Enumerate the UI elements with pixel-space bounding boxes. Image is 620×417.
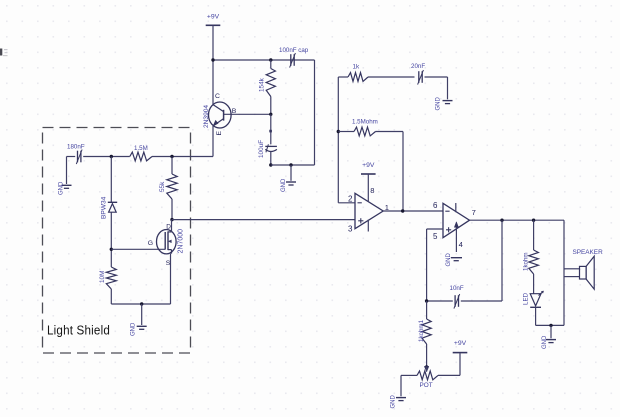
svg-text:2: 2 [348, 195, 353, 204]
svg-text:GND: GND [131, 322, 137, 336]
svg-text:2N7000: 2N7000 [177, 229, 184, 254]
svg-text:154k: 154k [259, 77, 266, 92]
svg-text:4: 4 [459, 240, 463, 249]
svg-text:+9V: +9V [207, 14, 220, 21]
svg-text:1kohm: 1kohm [523, 252, 530, 271]
svg-text:POT: POT [420, 382, 433, 389]
svg-text:GND: GND [436, 97, 442, 111]
svg-text:2N3904: 2N3904 [203, 105, 210, 128]
svg-text:3: 3 [348, 225, 353, 234]
svg-text:LED: LED [522, 292, 529, 305]
svg-text:55k: 55k [159, 181, 166, 192]
svg-text:+9V: +9V [454, 340, 467, 347]
svg-text:E: E [216, 131, 223, 136]
svg-text:+9V: +9V [362, 162, 375, 169]
svg-text:D: D [166, 224, 171, 231]
svg-text:GND: GND [446, 253, 452, 267]
svg-text:1.5Mohm: 1.5Mohm [352, 119, 378, 126]
svg-text:GND: GND [281, 178, 287, 192]
svg-text:100nF cap: 100nF cap [279, 47, 309, 54]
svg-text:1kohm1: 1kohm1 [418, 319, 425, 342]
svg-text:GND: GND [391, 395, 397, 409]
svg-text:1.5M: 1.5M [134, 145, 148, 152]
svg-text:1k: 1k [353, 64, 361, 71]
svg-text:180nF: 180nF [67, 144, 85, 151]
svg-text:GND: GND [542, 335, 548, 349]
svg-text:8: 8 [370, 186, 374, 195]
svg-text:5: 5 [433, 232, 438, 241]
svg-text:B: B [232, 108, 237, 115]
svg-text:20nF: 20nF [411, 63, 425, 70]
svg-text:S: S [166, 260, 171, 267]
svg-text:BPW34: BPW34 [101, 196, 108, 219]
svg-text:7: 7 [472, 208, 476, 217]
svg-text:C: C [215, 93, 220, 100]
svg-text:G: G [148, 240, 153, 247]
svg-text:GND: GND [59, 181, 65, 195]
svg-text:6: 6 [433, 201, 438, 210]
svg-text:10nF: 10nF [450, 285, 464, 292]
svg-text:10M: 10M [99, 271, 106, 283]
svg-text:SPEAKER: SPEAKER [573, 249, 604, 256]
svg-text:Light Shield: Light Shield [47, 324, 110, 338]
svg-text:100uF: 100uF [258, 140, 265, 158]
